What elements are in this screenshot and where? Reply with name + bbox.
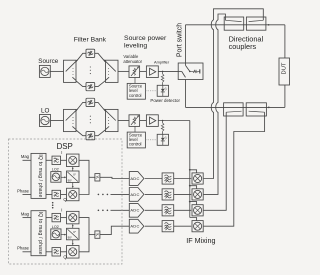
wire A1 to port switch [158,70,178,72]
ADC3 [129,203,144,217]
quadrature splitter 0/90 (block 2) [67,228,80,240]
wire SW1 to filter F1a [76,53,86,62]
LO oscillator [40,115,51,127]
svg-text:IF Mixing: IF Mixing [186,236,215,245]
wire filter I to mixer MI (block 2) [61,217,67,219]
IF low-pass filter LF1 [162,173,174,184]
wire top feed line to couplers [186,24,285,26]
wire filter Q to mixer MQ (block 2) [61,251,67,253]
ellipsis dots row 3 [98,210,109,212]
arrow LO2 to quad splitter (block 1) [61,176,67,178]
text label Port switch (vertical) [176,23,183,57]
IF low-pass filter LF2 [162,189,174,200]
wire bottom feed line to couplers [186,106,285,108]
svg-text:ADC: ADC [130,224,139,229]
wire Phase output (block 2) [23,251,32,253]
wire Mag output (block 2) [23,217,32,219]
wire filter F2a to switch SW4 [95,102,106,111]
filter F2a (bandpass) [86,98,95,106]
svg-text:LO: LO [41,107,50,114]
wire DC4 coupled port to mixer M4 [204,112,265,226]
LO branch to mixer M1 [189,169,197,173]
text label I (block 1) [61,150,62,155]
wire Phase output (block 1) [23,194,32,196]
svg-text:Mag: Mag [21,154,30,159]
junction node bottom line [268,107,270,109]
filter F2b (bandpass) [86,132,95,140]
ellipsis dots row 2 [98,194,109,196]
svg-text:Power detector: Power detector [150,98,180,103]
svg-text:Source: Source [38,58,58,65]
svg-text:DUT: DUT [282,62,288,74]
mixer MQ (block 2) [67,246,80,258]
svg-text:Mag: Mag [21,211,30,216]
wire SW3 to filter F2b [76,130,86,136]
DC2 coupled line [249,20,264,21]
switch SW4 (Nx1) [104,109,118,132]
wire mixer bus (block 2) [79,218,95,252]
DSP dashed border [9,139,123,264]
switch SW2 (Nx1) [104,60,118,83]
control wire SLC1 to PD1 (dashed) [145,90,157,92]
wire mixer bus (block 1) [79,160,95,194]
control wire SLC2 to PD2 (dashed) [145,139,157,141]
wire ADC2 stub [111,193,130,195]
IF low-pass filter LF4 [162,221,174,232]
power detector PD2 [157,134,168,145]
wire LO to switch SW3 [51,120,64,122]
IF low-pass filter LF3 [162,205,174,216]
svg-text:Source power: Source power [124,35,167,42]
arrow quad to mixer MI (block 1) [72,167,74,171]
junction node at A2 output [162,120,164,122]
LO branch to mixer M4 [190,218,197,221]
wire filter F1a to switch SW2 [95,53,106,62]
text label Phase (block 2) [17,246,30,251]
text label Mag (block 2) [21,211,30,216]
wire IQ box to filter Q (block 2) [46,251,52,253]
text label LO [41,107,50,114]
svg-text:Amplifier: Amplifier [154,59,170,64]
svg-text:I: I [61,150,62,155]
svg-text:ADC: ADC [130,208,139,213]
svg-text:0°: 0° [73,230,76,234]
text label LO2 (block 1) [52,168,59,172]
junction node at A1 output [162,71,164,73]
ADC2 [129,188,144,202]
low-pass filter I (block 1) [52,156,61,164]
svg-text:I: I [61,207,62,212]
arrow quad to mixer MQ (block 2) [72,240,74,246]
directional coupler DC4 [246,103,266,116]
wire SW3 to filter F2a [76,102,86,111]
DC3 coupled line [226,111,241,112]
wire mixer M3 to filter LF3 [174,209,192,211]
svg-text:LO2: LO2 [52,168,59,172]
wire bottom line to DUT [284,85,286,107]
wire source to switch SW1 [50,70,63,72]
low-pass filter Q (block 1) [52,190,61,198]
IQ to mag/phase converter (block 1) [31,153,46,198]
text label Q (block 1) [63,197,67,202]
svg-text:attenuator: attenuator [123,59,142,64]
wire DC3 coupled port to mixer M3 [204,112,227,210]
wire mixer M4 to filter LF4 [174,225,192,227]
wire ADC4 to filter LF4 [145,225,162,227]
switch SW1 (1xN) [64,60,78,83]
resistor R2 tap to power detector [161,121,164,135]
text label IF Mixing [186,236,215,245]
wire top line to DUT [284,25,286,58]
source oscillator SRC [39,65,50,77]
svg-text:Filter Bank: Filter Bank [74,37,107,44]
filter F1b (bandpass) [86,82,95,90]
mixer M4 [192,221,203,232]
resistor R1 tap to power detector [161,71,164,85]
wire SW1 to filter F1b [76,81,86,87]
variable attenuator AT2 [129,115,140,127]
arrow quad to mixer MI (block 2) [72,224,74,228]
vertical ellipsis between DSP blocks [52,202,54,209]
mixer MI (block 2) [67,211,80,224]
amplifier A2 [146,115,158,127]
control wire SLC2 to AT2 [134,126,136,132]
IQ to mag/phase converter (block 2) [31,211,46,256]
power detector PD1 [157,85,168,96]
oscillator LO2 (block 1) [51,172,61,183]
ADC1 [129,172,144,186]
wire ADC3 stub [111,209,130,211]
svg-text:ADC: ADC [130,176,139,181]
directional coupler DC3 [224,103,244,116]
svg-text:Phase: Phase [17,246,30,251]
wire port switch riser up [185,25,187,63]
svg-text:Phase: Phase [17,188,30,193]
wire ADC1 to filter LF1 [145,178,162,180]
amplifier A1 [146,66,158,78]
filter F1a (bandpass) [86,49,95,57]
wire DSP block 2 to ADC4 [100,226,129,234]
wire DSP block 1 to ADC1 [100,177,129,178]
mixer M3 [192,205,203,216]
digital filter box (block 2) [95,231,100,238]
text label Directional couplers [229,35,264,51]
wire mixer M2 to filter LF2 [174,193,192,195]
wire IQ box to filter Q (block 1) [46,194,52,196]
text label I (block 2) [61,207,62,212]
LO bus vertical [189,121,191,218]
text label DSP [57,142,73,151]
text label Mag (block 1) [21,154,30,159]
wire DC2 coupled port to mixer M1 [204,9,264,179]
mixer M1 [192,173,203,184]
mixer MI (block 1) [67,154,80,167]
directional coupler DC1 [224,17,244,30]
ADC4 [129,219,144,233]
wire AT1 to amplifier A1 [140,70,147,72]
switch SW3 (1xN) [64,109,78,132]
directional coupler DC2 [246,17,266,30]
svg-text:90°: 90° [68,178,72,182]
LO branch to mixer M2 [189,185,197,189]
wire mixer M1 to filter LF1 [174,178,192,180]
mixer M2 [192,189,203,200]
junction node top line [268,24,270,26]
variable attenuator AT1 [129,66,140,78]
DC1 coupled line [225,20,241,21]
low-pass filter I (block 2) [52,213,61,221]
svg-text:0°: 0° [73,173,76,177]
quadrature splitter 0/90 (block 1) [67,171,80,183]
text label LO2 (block 2) [52,225,59,229]
port switch PSW [178,63,203,80]
wire filter F2b to switch SW4 [95,130,106,136]
text label Q (block 2) [63,254,67,259]
ellipsis dots filter bank 1 [90,66,91,74]
oscillator LO2 (block 2) [51,229,61,240]
svg-text:LO2: LO2 [52,225,59,229]
DC4 coupled line [249,111,265,112]
wire port switch riser down [185,80,187,108]
wire filter F1b to switch SW2 [95,81,106,87]
control wire SLC1 to AT1 [134,78,136,84]
wire LO A2 output to LO bus [158,120,190,122]
text label Amplifier [154,59,170,64]
wire IQ box to filter I (block 1) [46,159,52,161]
wire SW2 to attenuator AT1 [118,70,129,72]
svg-text:couplers: couplers [229,42,257,51]
svg-text:IQ to mag / phase: IQ to mag / phase [37,212,43,255]
wire AT2 to amplifier A2 [140,120,147,122]
wire Mag output (block 1) [23,159,32,161]
LO branch to mixer M3 [189,201,197,205]
svg-text:ADC: ADC [130,192,139,197]
text label Filter Bank [74,37,107,44]
text label Source power leveling [124,35,167,50]
svg-text:control: control [129,93,142,98]
wire ADC3 to filter LF3 [145,209,162,211]
arrow LO2 to quad splitter (block 2) [61,234,67,236]
wire DC1 coupled port to mixer M2 [204,14,226,194]
svg-text:90°: 90° [68,236,72,240]
arrow quad to mixer MQ (block 1) [72,183,74,189]
low-pass filter Q (block 2) [52,248,61,256]
svg-text:Port switch: Port switch [176,23,183,57]
wire ADC2 to filter LF2 [145,193,162,195]
source level control box SLC1 [127,83,145,99]
text label Power detector [150,98,180,103]
svg-text:control: control [129,142,142,147]
wire IQ box to filter I (block 2) [46,217,52,219]
text label Variable attenuator [123,54,142,64]
svg-text:IQ to mag / phase: IQ to mag / phase [37,154,43,197]
text label Source [38,58,58,65]
wire filter Q to mixer MQ (block 1) [61,194,67,196]
ellipsis dots filter bank 2 [90,116,91,124]
source level control box SLC2 [127,132,145,148]
mixer MQ (block 1) [67,188,80,201]
text label Phase (block 1) [17,188,30,193]
wire filter I to mixer MI (block 1) [61,159,67,161]
wire SW4 to attenuator AT2 [118,120,129,122]
svg-text:DSP: DSP [57,142,73,151]
digital filter box (block 1) [95,174,100,181]
svg-text:leveling: leveling [124,43,147,50]
DUT box [279,58,290,85]
